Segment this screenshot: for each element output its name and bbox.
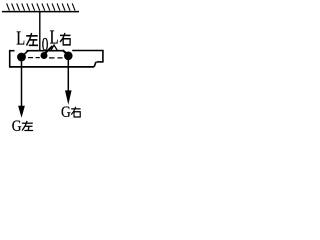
svg-text:0: 0 [42,36,49,56]
svg-text:G: G [61,104,71,121]
svg-text:L: L [50,25,59,48]
svg-text:G: G [12,118,22,134]
svg-text:L: L [16,26,25,49]
